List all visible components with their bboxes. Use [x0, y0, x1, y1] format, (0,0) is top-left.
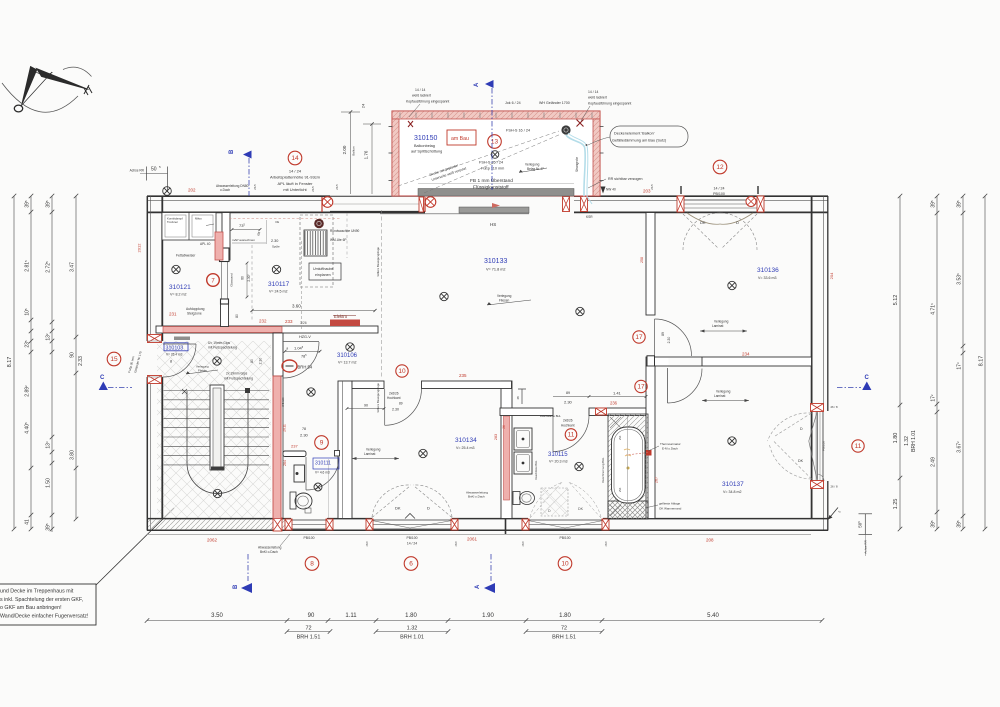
svg-text:V= 25.4 m3: V= 25.4 m3	[456, 446, 474, 450]
svg-text:26: 26	[502, 425, 506, 429]
svg-text:OK Wannenrand: OK Wannenrand	[659, 507, 682, 511]
svg-text:Balkon: Balkon	[352, 146, 356, 156]
svg-text:10: 10	[398, 368, 406, 375]
wall W5 bath top	[500, 408, 553, 416]
svg-text:80: 80	[235, 314, 239, 318]
svg-text:204: 204	[829, 272, 834, 279]
svg-text:Elektro: Elektro	[334, 314, 348, 319]
svg-text:Verlegung: Verlegung	[714, 320, 729, 324]
left dimension chains	[7, 165, 168, 532]
svg-text:11: 11	[568, 432, 575, 439]
svg-text:Fliesen: Fliesen	[499, 299, 510, 303]
outer wall right	[812, 196, 828, 531]
svg-text:3/26: 3/26	[300, 321, 307, 325]
svg-text:14 / 24: 14 / 24	[714, 187, 725, 191]
svg-text:26/8: 26/8	[454, 541, 458, 547]
stairwell floor tile hatch	[157, 341, 271, 518]
svg-text:APL 40: APL 40	[200, 242, 211, 246]
svg-text:Kopfausführung eingespannt: Kopfausführung eingespannt	[588, 102, 631, 106]
svg-text:FSH-S 16 / 24: FSH-S 16 / 24	[506, 129, 530, 133]
svg-text:1.32: 1.32	[904, 436, 910, 446]
room 310121	[172, 265, 180, 273]
svg-text:8.17: 8.17	[7, 357, 13, 368]
310136 door arc	[655, 319, 692, 356]
svg-text:3.47: 3.47	[70, 262, 76, 272]
svg-text:Hochkant: Hochkant	[387, 396, 401, 400]
svg-text:DK: DK	[395, 506, 401, 511]
svg-text:89: 89	[566, 391, 570, 395]
svg-text:1.90: 1.90	[482, 613, 494, 619]
svg-text:V= 8.2 m2: V= 8.2 m2	[170, 293, 186, 297]
svg-text:D: D	[800, 427, 803, 431]
downpipe dark circle	[561, 125, 570, 134]
svg-text:Steigzone: Steigzone	[187, 312, 202, 316]
kitchen counters	[162, 213, 216, 241]
svg-text:72: 72	[561, 626, 567, 632]
svg-text:3.60: 3.60	[292, 304, 301, 309]
svg-text:Duschtrennung BHL: Duschtrennung BHL	[601, 457, 605, 483]
svg-text:3.80: 3.80	[70, 450, 76, 460]
svg-text:78: 78	[302, 427, 306, 431]
svg-text:1.32: 1.32	[407, 626, 418, 632]
svg-text:2%: 2%	[618, 487, 622, 492]
svg-text:Achse RR: Achse RR	[864, 539, 868, 553]
svg-text:D: D	[736, 220, 739, 225]
Deckenelement leader bubble	[610, 126, 688, 147]
svg-text:Thermoarmatur: Thermoarmatur	[660, 442, 681, 446]
room 310117	[272, 265, 280, 273]
svg-text:26/8: 26/8	[521, 541, 525, 547]
svg-text:26/8: 26/8	[365, 541, 369, 547]
svg-text:PB/100: PB/100	[713, 192, 725, 196]
svg-text:D: D	[427, 506, 430, 511]
svg-text:50: 50	[151, 167, 157, 173]
svg-text:Gefälledämmung am Bau (Sutz): Gefälledämmung am Bau (Sutz)	[612, 139, 667, 143]
svg-text:17: 17	[637, 384, 645, 391]
svg-text:Spüle: Spüle	[272, 245, 280, 249]
svg-text:2x6/26: 2x6/26	[389, 392, 399, 396]
svg-text:310137: 310137	[722, 481, 744, 488]
svg-text:mit Fußspachtelung: mit Fußspachtelung	[224, 377, 253, 381]
svg-text:Laminat: Laminat	[714, 394, 725, 398]
310134 door arc	[385, 389, 422, 426]
svg-text:V= 26.4 m3: V= 26.4 m3	[166, 353, 183, 357]
svg-text:6: 6	[409, 561, 413, 568]
WC door arc	[306, 457, 339, 490]
note box	[0, 508, 174, 625]
svg-text:2.305: 2.305	[247, 274, 251, 281]
svg-text:26.5: 26.5	[311, 186, 315, 192]
circled 13	[488, 135, 502, 149]
svg-text:310134: 310134	[455, 437, 477, 444]
wall W1 kitchen/hall horizontal	[156, 326, 378, 333]
svg-text:Deckenelement 'Balkon': Deckenelement 'Balkon'	[614, 132, 655, 136]
V2 wall jamb through bottom wall	[505, 519, 507, 535]
svg-text:Verlegung: Verlegung	[497, 294, 512, 298]
svg-text:Balkonbelag: Balkonbelag	[414, 144, 435, 148]
kitchen window in top wall	[330, 203, 425, 205]
svg-text:weiß lackiert: weiß lackiert	[412, 94, 431, 98]
outer wall top	[147, 196, 828, 212]
svg-text:s inkl. Spachtelung der ersten: s inkl. Spachtelung der ersten GKF,	[0, 597, 83, 603]
svg-text:o GKF am Bau anbringen!: o GKF am Bau anbringen!	[0, 605, 62, 611]
310137 door leaf+arc	[667, 368, 669, 403]
svg-text:231: 231	[169, 312, 177, 317]
circled M kitchen	[207, 274, 220, 287]
wall W2 stair/hall vertical (pink)	[273, 333, 283, 376]
svg-text:310111: 310111	[315, 461, 331, 467]
WC 310111 light	[314, 483, 322, 491]
svg-text:mAP ausrechnen: mAP ausrechnen	[232, 238, 255, 242]
svg-text:Aufdopplung: Aufdopplung	[186, 307, 205, 311]
svg-text:A: A	[475, 584, 481, 589]
svg-text:2%: 2%	[618, 435, 622, 440]
svg-text:3.50: 3.50	[211, 613, 223, 619]
svg-text:BRH 1.51: BRH 1.51	[297, 635, 321, 641]
svg-text:41: 41	[25, 519, 31, 525]
bottom circled numbers	[305, 557, 319, 571]
svg-text:B: B	[233, 584, 239, 589]
svg-text:HS: HS	[490, 222, 496, 227]
svg-text:89: 89	[661, 332, 665, 336]
svg-text:Verlegung: Verlegung	[716, 390, 731, 394]
svg-text:Wand/Decke einfacher Fugenvers: Wand/Decke einfacher Fugenversatz!	[0, 613, 88, 619]
svg-text:237: 237	[291, 444, 298, 449]
svg-text:26.5: 26.5	[253, 184, 257, 190]
svg-text:WM-Ute 6P: WM-Ute 6P	[330, 238, 346, 242]
svg-text:203: 203	[643, 189, 651, 194]
svg-text:2.30: 2.30	[271, 239, 278, 243]
wall V2 (310134 right) vertical	[501, 381, 512, 519]
svg-text:2.30: 2.30	[392, 408, 399, 412]
svg-text:1.80: 1.80	[893, 433, 899, 444]
svg-text:V= 34.8 m2: V= 34.8 m2	[723, 490, 741, 494]
svg-text:283: 283	[494, 434, 498, 440]
svg-text:Fettabweiser: Fettabweiser	[176, 254, 196, 258]
svg-text:310103: 310103	[166, 345, 184, 351]
svg-text:Hochkant: Hochkant	[561, 424, 575, 428]
bottom dimension rows	[145, 613, 824, 641]
kitchen dashed joints	[301, 241, 303, 330]
svg-text:Mikro: Mikro	[195, 217, 202, 221]
glass partition	[221, 262, 223, 299]
wall W6 left of 310136	[646, 213, 655, 316]
svg-text:2x6/26: 2x6/26	[563, 419, 573, 423]
svg-text:Jok 6 / 24: Jok 6 / 24	[505, 101, 521, 105]
outer wall bottom	[147, 519, 828, 535]
svg-text:11: 11	[855, 443, 862, 450]
bath sinks	[514, 428, 532, 450]
svg-text:2.30: 2.30	[259, 358, 263, 365]
am Bau red box	[447, 130, 476, 145]
stairs	[164, 391, 270, 465]
svg-text:Abwasserleitung: Abwasserleitung	[258, 546, 282, 550]
svg-text:14 / 14: 14 / 14	[415, 88, 425, 92]
svg-text:80: 80	[241, 276, 245, 280]
svg-text:V= 13.7 m2: V= 13.7 m2	[338, 361, 356, 365]
svg-text:C: C	[100, 375, 105, 381]
svg-text:V= 20.3 m3: V= 20.3 m3	[549, 460, 567, 464]
svg-text:E-M o.Dach: E-M o.Dach	[662, 447, 678, 451]
svg-text:15: 15	[110, 356, 118, 363]
svg-text:2x 19mm Gips: 2x 19mm Gips	[226, 372, 248, 376]
svg-text:NW 40: NW 40	[606, 188, 616, 192]
wall W8 over 310134	[352, 381, 384, 389]
svg-text:2.49: 2.49	[931, 457, 937, 467]
svg-text:BRH 1.51: BRH 1.51	[552, 635, 576, 641]
svg-text:1.80: 1.80	[405, 613, 417, 619]
svg-text:WH Geländer 1700: WH Geländer 1700	[539, 101, 570, 105]
svg-text:geflieste Ablage: geflieste Ablage	[659, 502, 681, 506]
balcony dims	[350, 112, 352, 194]
svg-text:310115: 310115	[548, 452, 568, 458]
heating pipe T symbols	[518, 389, 526, 404]
compass north arrow	[2, 67, 92, 113]
svg-text:mit Unterlicht: mit Unterlicht	[283, 187, 307, 192]
svg-text:am Bau: am Bau	[451, 136, 469, 142]
svg-text:17: 17	[635, 334, 643, 341]
BRH 54 red oval	[282, 360, 297, 372]
svg-text:Strangrohr: Strangrohr	[575, 156, 579, 172]
svg-text:2062: 2062	[207, 538, 218, 543]
svg-text:auf Splittschüttung: auf Splittschüttung	[411, 150, 442, 154]
svg-text:14 / 24: 14 / 24	[407, 542, 417, 546]
svg-text:BRH 1.01: BRH 1.01	[911, 430, 917, 452]
right dimension chains	[828, 194, 987, 556]
svg-text:208: 208	[706, 538, 714, 543]
svg-text:26 / 8: 26 / 8	[831, 485, 838, 489]
window 310136 in top wall	[683, 195, 757, 197]
svg-text:72: 72	[305, 626, 311, 632]
wall W7 between 310136/310137	[646, 357, 812, 366]
svg-text:o.Dach: o.Dach	[220, 188, 230, 192]
svg-text:Laminat: Laminat	[364, 452, 375, 456]
svg-text:8: 8	[170, 360, 172, 364]
svg-text:310121: 310121	[169, 284, 191, 291]
svg-text:310136: 310136	[757, 267, 779, 274]
svg-text:APL läuft in Fenster: APL läuft in Fenster	[278, 181, 314, 186]
svg-text:202: 202	[188, 188, 196, 193]
svg-text:B: B	[229, 149, 235, 154]
svg-text:1.50: 1.50	[46, 478, 52, 488]
svg-text:Verlegung: Verlegung	[525, 163, 540, 167]
svg-text:8.17: 8.17	[979, 356, 985, 367]
svg-text:Flüssigkunststoff: Flüssigkunststoff	[473, 185, 509, 191]
wall W3 WC/310134 vertical	[338, 381, 352, 519]
bath door arc	[553, 416, 589, 452]
Umlufthaube box	[309, 263, 341, 280]
svg-text:Verlegung: Verlegung	[366, 448, 381, 452]
svg-text:310150: 310150	[414, 135, 437, 142]
svg-text:264: 264	[283, 460, 287, 466]
bath window arcs	[530, 481, 563, 518]
wall stub above W1	[221, 299, 229, 327]
svg-text:V= 4.6 m3: V= 4.6 m3	[315, 471, 330, 475]
WC 310111 toilet	[290, 492, 296, 509]
svg-text:24: 24	[361, 103, 366, 108]
right window door arcs	[768, 413, 812, 441]
svg-text:BnKl o.Dach: BnKl o.Dach	[260, 550, 278, 554]
svg-text:Duschwanne BHL: Duschwanne BHL	[540, 414, 561, 418]
svg-text:Laminat: Laminat	[712, 324, 723, 328]
svg-text:26/8: 26/8	[604, 541, 608, 547]
svg-text:1.76: 1.76	[364, 150, 369, 159]
bottom window 1 (WC)	[291, 519, 327, 521]
svg-text:Arbeitsplattenhöhe 91-93cm: Arbeitsplattenhöhe 91-93cm	[270, 175, 321, 180]
Elektro red bar	[330, 320, 360, 327]
bottom wall hatch left	[148, 519, 289, 529]
svg-text:Rundwaschbe UN90: Rundwaschbe UN90	[330, 229, 359, 233]
svg-text:26 / 8: 26 / 8	[831, 405, 838, 409]
svg-text:weiß lackiert: weiß lackiert	[588, 96, 607, 100]
svg-text:89: 89	[399, 402, 403, 406]
svg-text:2.30: 2.30	[300, 433, 309, 438]
svg-text:14 / 24: 14 / 24	[289, 169, 302, 174]
svg-text:232: 232	[259, 319, 267, 324]
stair handrail U	[187, 391, 248, 494]
svg-text:PB/100: PB/100	[303, 536, 314, 540]
svg-text:267: 267	[655, 477, 659, 483]
svg-text:48: 48	[516, 396, 520, 400]
310136 window arcs	[683, 213, 720, 250]
left margin items	[107, 352, 121, 366]
WC 310111 washbasin	[294, 465, 305, 482]
bath toilet	[513, 492, 520, 505]
svg-text:14 / 14: 14 / 14	[588, 90, 598, 94]
wall W3b above WC	[283, 451, 306, 457]
svg-text:1.41: 1.41	[613, 391, 622, 396]
dashed appliance box + radiator	[300, 215, 333, 287]
svg-text:8: 8	[310, 561, 314, 568]
svg-text:PB/100: PB/100	[559, 536, 570, 540]
bottom window 2 (310134 french door)	[372, 519, 452, 521]
svg-text:IFB 100: IFB 100	[281, 397, 285, 407]
svg-text:PB/100: PB/100	[406, 536, 417, 540]
svg-text:2012: 2012	[137, 243, 142, 253]
svg-text:A: A	[474, 82, 480, 87]
svg-text:1.11: 1.11	[345, 613, 357, 619]
svg-text:310133: 310133	[484, 258, 507, 265]
svg-text:90: 90	[70, 352, 76, 358]
svg-text:mittlere Bewegungsfuge: mittlere Bewegungsfuge	[376, 247, 380, 277]
sliding door sill bar inside room	[459, 207, 529, 213]
movement joint dashed	[381, 210, 383, 378]
svg-text:einplanen: einplanen	[315, 273, 331, 277]
stair spine	[210, 385, 224, 470]
svg-text:310106: 310106	[337, 353, 358, 359]
svg-text:5.12: 5.12	[893, 295, 899, 306]
svg-text:DK: DK	[798, 459, 804, 463]
svg-text:Dk: Dk	[276, 220, 280, 224]
svg-text:und Decke im Treppenhaus mit: und Decke im Treppenhaus mit	[0, 589, 74, 595]
bathtub	[608, 414, 648, 519]
balcony dashed leaders	[398, 131, 559, 186]
svg-text:90: 90	[364, 404, 368, 408]
svg-text:V= 33.6 m3: V= 33.6 m3	[758, 276, 776, 280]
svg-text:80: 80	[250, 359, 254, 363]
svg-text:234: 234	[742, 352, 750, 357]
310103 hall	[164, 343, 188, 351]
entry door opening left wall	[148, 335, 162, 343]
svg-text:14: 14	[291, 155, 299, 162]
svg-text:DK: DK	[578, 507, 584, 511]
svg-text:2.30: 2.30	[564, 400, 573, 405]
top-left corner circle symbol	[163, 187, 172, 196]
310134 window arcs	[372, 486, 410, 518]
right wall french window	[816, 411, 818, 481]
WC room 310111	[313, 458, 339, 469]
svg-text:233: 233	[285, 319, 293, 324]
svg-text:C: C	[865, 375, 870, 381]
svg-text:235: 235	[459, 373, 467, 378]
svg-text:DK: DK	[700, 220, 706, 225]
cyan drain pipes	[566, 135, 585, 197]
kitchen partition wall stub	[222, 213, 230, 261]
svg-text:26.5: 26.5	[650, 184, 654, 190]
svg-text:mit Fußspachtelung: mit Fußspachtelung	[208, 346, 237, 350]
svg-text:Umlufthaube: Umlufthaube	[313, 267, 333, 271]
svg-text:2.33: 2.33	[78, 356, 84, 366]
svg-text:2.00: 2.00	[342, 145, 347, 154]
svg-text:V= 71.8 m2: V= 71.8 m2	[486, 268, 506, 272]
bottom window 3 (bath)	[528, 519, 603, 521]
svg-text:236: 236	[610, 401, 618, 406]
svg-text:1.80: 1.80	[559, 613, 571, 619]
svg-text:90: 90	[308, 613, 315, 619]
svg-text:Kopfausführung eingespannt: Kopfausführung eingespannt	[406, 100, 449, 104]
balcony 310150	[389, 111, 604, 196]
svg-text:BnKl o.Dach: BnKl o.Dach	[468, 495, 485, 499]
svg-text:RR sichtbar verzogen: RR sichtbar verzogen	[608, 177, 643, 181]
red X marks balcony corners	[408, 121, 413, 127]
310103 entry door arc	[163, 344, 196, 377]
red circle-x junction marks kitchen window	[321, 197, 323, 212]
svg-text:PB/100: PB/100	[822, 441, 826, 451]
svg-text:5.40: 5.40	[707, 613, 719, 619]
svg-text:Duschrinne BHL: Duschrinne BHL	[534, 460, 538, 479]
svg-text:2061: 2061	[467, 537, 478, 542]
svg-text:V= 24.5 m2: V= 24.5 m2	[269, 290, 287, 294]
outer wall left	[147, 196, 162, 531]
shower	[541, 488, 568, 516]
balcony door threshold bar	[418, 189, 574, 197]
svg-text:2.30: 2.30	[667, 337, 671, 344]
svg-text:258: 258	[640, 257, 644, 263]
svg-text:BRH 1.01: BRH 1.01	[400, 635, 424, 641]
svg-text:2011: 2011	[283, 424, 287, 432]
svg-text:Glaswand: Glaswand	[230, 273, 234, 287]
svg-text:U> 19mm Gips: U> 19mm Gips	[208, 341, 230, 345]
svg-text:1.25: 1.25	[893, 499, 899, 510]
wall W4 right of bathtub	[646, 366, 655, 519]
svg-text:310117: 310117	[268, 281, 290, 288]
svg-text:KSR: KSR	[586, 215, 593, 219]
svg-text:26.5: 26.5	[335, 184, 339, 190]
svg-text:9: 9	[320, 440, 324, 447]
svg-text:Trockner: Trockner	[167, 220, 178, 224]
svg-text:HZG-V: HZG-V	[299, 335, 311, 339]
svg-text:12: 12	[716, 164, 724, 171]
top wall jambs/junctions	[563, 197, 570, 212]
svg-text:10: 10	[561, 561, 569, 568]
svg-text:Achse RR: Achse RR	[130, 169, 145, 173]
